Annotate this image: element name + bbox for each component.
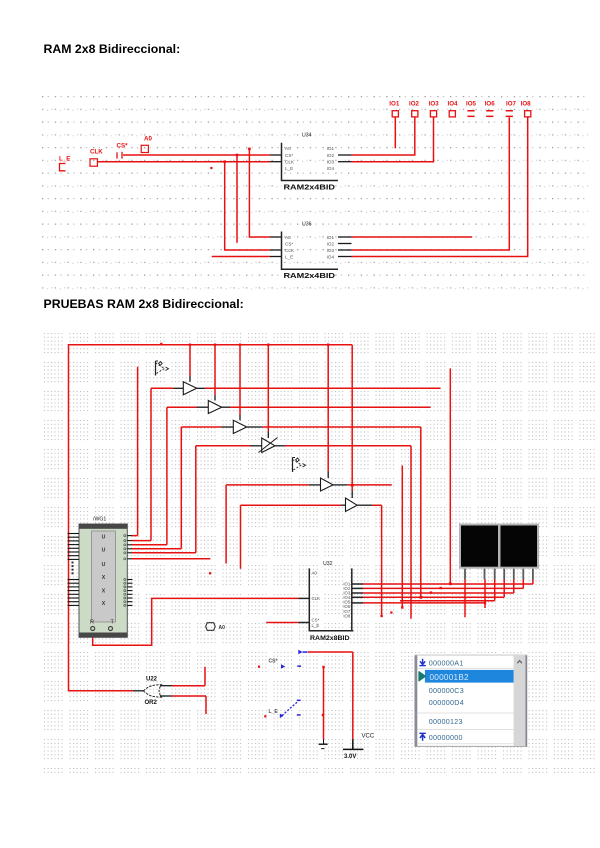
svg-text:IO1: IO1 bbox=[327, 235, 335, 240]
svg-text:000000C3: 000000C3 bbox=[429, 686, 464, 695]
svg-text:CS*: CS* bbox=[269, 659, 278, 665]
svg-text:A0: A0 bbox=[144, 136, 152, 143]
svg-text:A0: A0 bbox=[285, 146, 291, 151]
svg-text:000000A1: 000000A1 bbox=[429, 658, 464, 667]
svg-text:00000000: 00000000 bbox=[429, 733, 463, 742]
svg-text:IO3: IO3 bbox=[429, 100, 440, 107]
svg-text:CS*: CS* bbox=[285, 153, 293, 158]
svg-text:U32: U32 bbox=[323, 561, 333, 567]
svg-text:IO3: IO3 bbox=[327, 160, 335, 165]
svg-text:CLK: CLK bbox=[285, 248, 295, 253]
svg-text:CS*: CS* bbox=[285, 241, 293, 246]
svg-text:000001B2: 000001B2 bbox=[430, 673, 470, 682]
svg-text:IO8: IO8 bbox=[521, 100, 532, 107]
svg-text:X: X bbox=[102, 601, 106, 607]
svg-text:3.0V: 3.0V bbox=[344, 754, 356, 760]
svg-text:L_E: L_E bbox=[285, 166, 293, 171]
svg-text:U36: U36 bbox=[302, 221, 312, 227]
svg-text:IO8: IO8 bbox=[343, 614, 351, 619]
svg-text:RAM2x8BID: RAM2x8BID bbox=[310, 635, 350, 642]
svg-text:IO1: IO1 bbox=[389, 100, 400, 107]
svg-text:IO1: IO1 bbox=[327, 146, 335, 151]
svg-text:L_E: L_E bbox=[312, 623, 320, 628]
svg-text:000000D4: 000000D4 bbox=[429, 698, 464, 707]
svg-text:IO2: IO2 bbox=[327, 241, 335, 246]
svg-text:CLK: CLK bbox=[312, 596, 321, 601]
svg-text:OR2: OR2 bbox=[145, 700, 158, 706]
svg-text:IO6: IO6 bbox=[485, 100, 496, 107]
svg-text:A0: A0 bbox=[219, 625, 226, 631]
svg-text:RAM2x4BID: RAM2x4BID bbox=[284, 182, 336, 191]
svg-text:CLK: CLK bbox=[285, 160, 295, 165]
svg-text:IO5: IO5 bbox=[466, 100, 477, 107]
svg-text:X: X bbox=[102, 588, 106, 594]
svg-text:CLK: CLK bbox=[90, 149, 103, 156]
svg-text:R: R bbox=[90, 620, 94, 626]
svg-text:IO2: IO2 bbox=[327, 153, 335, 158]
svg-text:IO2: IO2 bbox=[409, 100, 420, 107]
svg-text:L_E: L_E bbox=[269, 709, 279, 715]
svg-text:U22: U22 bbox=[146, 676, 158, 682]
svg-text:U: U bbox=[102, 534, 106, 540]
svg-text:CS*: CS* bbox=[117, 143, 129, 150]
svg-text:IO4: IO4 bbox=[327, 166, 335, 171]
svg-text:00000123: 00000123 bbox=[429, 717, 463, 726]
svg-text:U34: U34 bbox=[302, 133, 312, 139]
svg-text:IO3: IO3 bbox=[327, 248, 335, 253]
svg-text:U: U bbox=[102, 562, 106, 568]
svg-text:L_E: L_E bbox=[59, 156, 70, 163]
svg-text:U: U bbox=[102, 548, 106, 554]
svg-text:IO4: IO4 bbox=[448, 100, 459, 107]
svg-text:X: X bbox=[102, 575, 106, 581]
svg-text:A0: A0 bbox=[285, 235, 291, 240]
svg-text:VCC: VCC bbox=[362, 734, 375, 740]
svg-text:L_E: L_E bbox=[285, 254, 293, 259]
svg-text:IO4: IO4 bbox=[327, 254, 335, 259]
svg-text:A0: A0 bbox=[312, 570, 318, 575]
svg-text:RAM2x4BID: RAM2x4BID bbox=[284, 271, 336, 280]
svg-text:/WG1: /WG1 bbox=[93, 517, 106, 523]
svg-text:CS*: CS* bbox=[312, 617, 320, 622]
svg-text:IO7: IO7 bbox=[506, 100, 517, 107]
